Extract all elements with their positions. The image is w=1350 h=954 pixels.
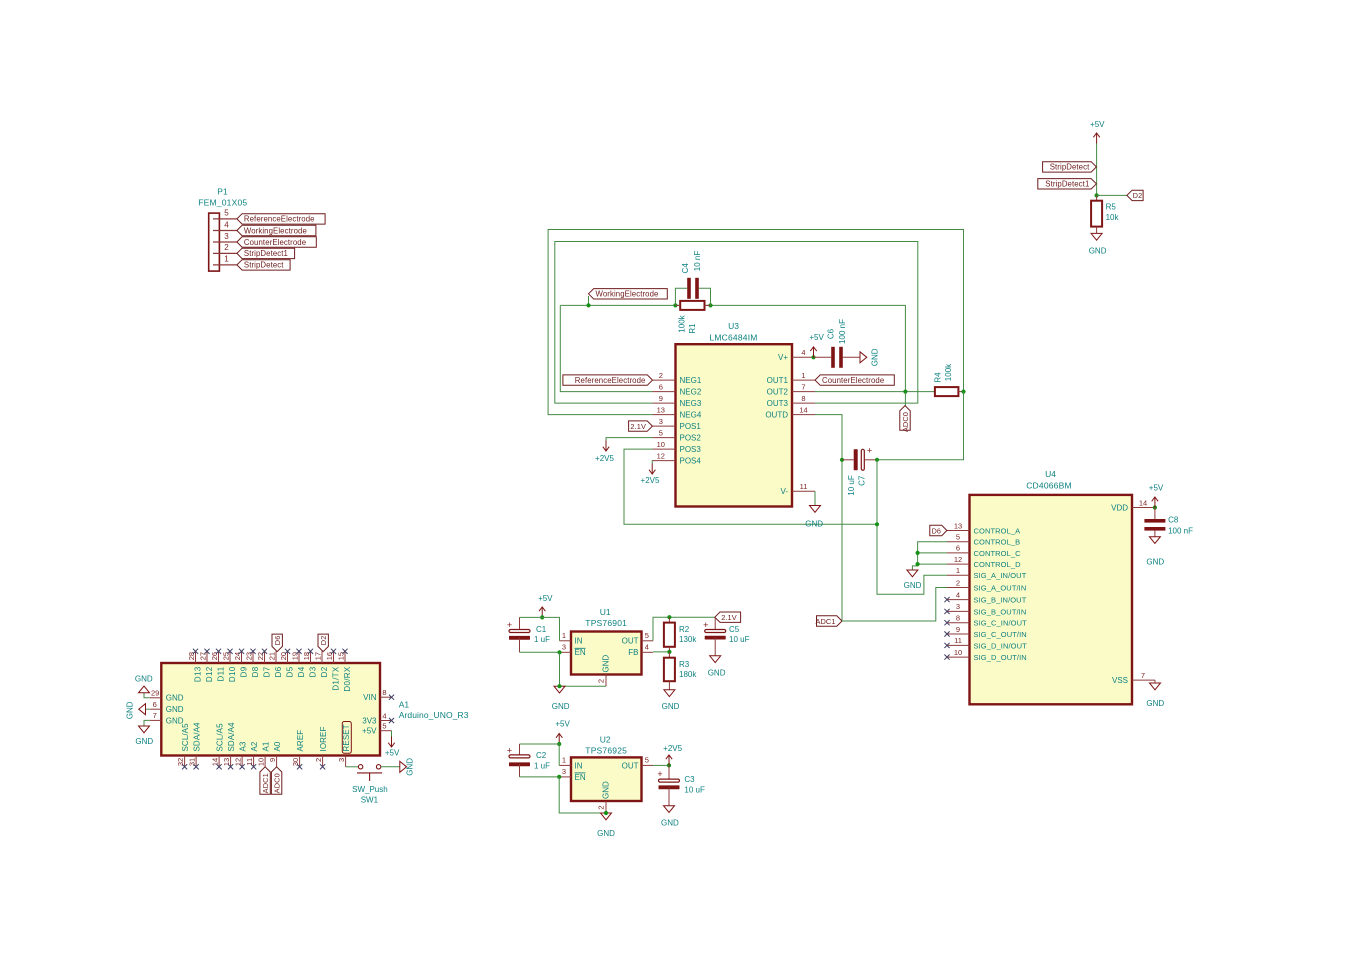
- label WorkingElectrode (U3): [589, 289, 668, 299]
- op-amp U3 LMC6484IM body: [676, 344, 793, 506]
- svg-text:VSS: VSS: [1112, 676, 1128, 685]
- node junction U2 GND: [604, 811, 608, 815]
- svg-text:D11: D11: [217, 666, 226, 681]
- svg-text:+: +: [507, 745, 512, 755]
- label ADC1 (mid): [817, 616, 843, 626]
- A1 pin 17 D2 (top): [321, 651, 323, 663]
- svg-text:8: 8: [382, 688, 386, 697]
- label D6 (Arduino D6 pin): [272, 634, 282, 652]
- capacitor C3 10uF (polarized): [668, 765, 670, 780]
- ground (U2): [601, 813, 612, 820]
- svg-text:130k: 130k: [679, 635, 697, 644]
- wire EN down to GND rail: [560, 652, 607, 686]
- ground (U4 VSS): [1150, 683, 1161, 690]
- U4 pin 7 VSS: [1132, 679, 1155, 681]
- A1 pin 22 D7 (top): [264, 651, 266, 663]
- svg-text:StripDetect: StripDetect: [244, 261, 284, 270]
- power +2V5 (POS4): [651, 461, 653, 464]
- svg-text:D8: D8: [251, 666, 260, 677]
- node junction CONTROL_C: [916, 551, 920, 555]
- ground (U1): [554, 686, 565, 693]
- capacitor C7 10uF (polarized): [842, 459, 854, 461]
- C4 connection wires: [675, 288, 687, 305]
- label CounterElectrode (U3 OUT1): [815, 375, 894, 385]
- svg-text:SIG_B_IN/OUT: SIG_B_IN/OUT: [974, 596, 1027, 605]
- wire C7 right down to SIG_A_IN: [877, 460, 947, 594]
- svg-text:GND: GND: [871, 348, 880, 366]
- svg-text:LMC6484IM: LMC6484IM: [709, 332, 757, 342]
- ground (A1 pin 7, down): [144, 720, 150, 726]
- svg-text:D6: D6: [274, 666, 283, 677]
- svg-text:POS4: POS4: [680, 457, 702, 466]
- U4 pin 8 SIG_C_IN/OUT: [947, 622, 970, 624]
- label ADC0 (Arduino A0 pin): [271, 767, 281, 795]
- U3 pin 12 POS4: [653, 460, 676, 462]
- svg-text:10 uF: 10 uF: [847, 475, 856, 496]
- svg-text:C2: C2: [536, 751, 547, 760]
- resistor R5: [1096, 195, 1098, 200]
- svg-text:3: 3: [337, 758, 346, 762]
- ground (right of SW1, rotated): [400, 761, 407, 772]
- P1 pin 1: [213, 264, 237, 266]
- U1 pin 3 EN: [560, 651, 572, 653]
- A1 pin 16 D1/TX (top): [333, 651, 335, 663]
- no-connect X on A1 pin 26: [216, 649, 221, 654]
- no-connect X on A1 pin 27: [204, 649, 209, 654]
- U4 pin 2 SIG_A_OUT/IN: [947, 587, 970, 589]
- svg-text:2: 2: [224, 243, 229, 252]
- svg-text:CONTROL_A: CONTROL_A: [974, 526, 1021, 535]
- svg-text:26: 26: [210, 652, 219, 660]
- svg-text:1 uF: 1 uF: [534, 762, 550, 771]
- svg-text:1: 1: [956, 566, 960, 575]
- A1 pin 5 +5V (right): [380, 730, 392, 732]
- svg-text:POS3: POS3: [680, 445, 702, 454]
- svg-text:SDA/A4: SDA/A4: [227, 722, 236, 752]
- capacitor C1 1uF (polarized): [519, 617, 521, 631]
- svg-text:OUT: OUT: [622, 761, 639, 770]
- wire EN down to GND pin: [559, 777, 606, 813]
- svg-text:21: 21: [268, 652, 277, 660]
- svg-text:2.1V: 2.1V: [721, 613, 737, 622]
- svg-text:ADC0: ADC0: [272, 773, 281, 793]
- svg-text:D10: D10: [228, 666, 237, 682]
- svg-text:GND: GND: [135, 737, 153, 746]
- node junction R1 left: [673, 303, 677, 307]
- svg-text:POS2: POS2: [680, 434, 702, 443]
- A1 pin 20 D5 (top): [287, 651, 289, 663]
- svg-text:2: 2: [314, 758, 323, 762]
- svg-text:SIG_C_OUT/IN: SIG_C_OUT/IN: [974, 630, 1027, 639]
- A1 pin 3 RESET (bottom): [345, 756, 347, 767]
- wire CONTROL_C: [918, 552, 947, 554]
- label ADC0 (U3): [900, 406, 910, 431]
- svg-text:25: 25: [222, 652, 231, 660]
- svg-text:CONTROL_D: CONTROL_D: [974, 560, 1022, 569]
- A1 pin 28 D13 (top): [195, 651, 197, 663]
- node junction EN: [557, 650, 561, 654]
- wire ADC1 to SIG_A_OUT: [842, 588, 947, 622]
- svg-text:20: 20: [279, 652, 288, 660]
- svg-text:A2: A2: [250, 741, 259, 751]
- svg-text:C5: C5: [729, 625, 740, 634]
- capacitor C4 10nF: [687, 278, 691, 299]
- svg-text:29: 29: [151, 689, 159, 698]
- A1 pin 4 3V3 (right): [380, 720, 392, 722]
- svg-text:28: 28: [187, 652, 196, 660]
- wire RESET to switch: [346, 766, 359, 768]
- svg-text:R4: R4: [933, 372, 942, 383]
- svg-text:1: 1: [224, 255, 229, 264]
- U1 pin 1 IN: [560, 640, 572, 642]
- svg-text:8: 8: [956, 614, 960, 623]
- label ADC0 stub: [904, 392, 906, 406]
- svg-text:2: 2: [596, 679, 605, 683]
- svg-text:D6: D6: [273, 636, 282, 646]
- svg-text:NEG4: NEG4: [680, 411, 702, 420]
- no-connect X on A1 pin 11: [251, 764, 256, 769]
- svg-text:GND: GND: [805, 519, 823, 528]
- svg-text:D0/RX: D0/RX: [343, 666, 352, 691]
- svg-text:EN: EN: [575, 773, 586, 782]
- svg-text:NEG1: NEG1: [680, 376, 702, 385]
- A1 pin 23 D8 (top): [252, 651, 254, 663]
- svg-text:WorkingElectrode: WorkingElectrode: [244, 226, 307, 235]
- wire NEG4 feedback loop (outer): [548, 230, 963, 415]
- U3 pin 8 OUT3: [792, 402, 815, 404]
- node junction R1 right: [708, 303, 712, 307]
- svg-text:10 nF: 10 nF: [693, 251, 702, 272]
- A1 pin 15 D0/RX (top): [344, 651, 346, 663]
- U3 pin 11 V-: [792, 490, 815, 492]
- svg-text:SIG_C_IN/OUT: SIG_C_IN/OUT: [974, 619, 1028, 628]
- wire CONTROL_B/C/D to ground: [912, 542, 947, 570]
- svg-text:6: 6: [153, 700, 157, 709]
- no-connect X on A1 pin 25: [227, 649, 232, 654]
- no-connect X on A1 pin 32: [182, 764, 187, 769]
- svg-text:ADC1: ADC1: [815, 617, 835, 626]
- svg-text:+5V: +5V: [538, 594, 553, 603]
- svg-text:GND: GND: [602, 655, 611, 673]
- svg-text:10: 10: [954, 648, 962, 657]
- svg-text:GND: GND: [602, 781, 611, 799]
- svg-text:C1: C1: [536, 625, 547, 634]
- wire NEG2 loop left: [560, 305, 652, 391]
- svg-text:V+: V+: [778, 353, 788, 362]
- A1 pin 21 D6 (top): [275, 651, 277, 663]
- svg-text:7: 7: [801, 382, 805, 391]
- svg-text:GND: GND: [166, 705, 184, 714]
- svg-text:+5V: +5V: [385, 748, 400, 757]
- label 2.1V (U3 POS1): [629, 421, 653, 431]
- svg-text:GND: GND: [1146, 699, 1164, 708]
- resistor R3 180k: [668, 652, 670, 658]
- svg-text:+2V5: +2V5: [663, 744, 682, 753]
- svg-text:GND: GND: [552, 702, 570, 711]
- U2 pin 1 IN: [559, 764, 571, 766]
- svg-text:4: 4: [382, 711, 386, 720]
- svg-text:GND: GND: [661, 819, 679, 828]
- svg-text:R1: R1: [688, 323, 697, 334]
- svg-text:10k: 10k: [1106, 213, 1120, 222]
- push button SW1 SW_Push: [358, 765, 362, 769]
- U2 pin 2 GND: [605, 801, 607, 813]
- wire FB to R2/R3: [653, 651, 669, 653]
- ground (below C8): [1149, 537, 1160, 544]
- svg-text:WorkingElectrode: WorkingElectrode: [596, 290, 659, 299]
- svg-text:IN: IN: [575, 761, 583, 770]
- node junction +5V U1: [540, 615, 544, 619]
- svg-text:5: 5: [645, 631, 649, 640]
- ground (A1 pin 29, up): [144, 693, 150, 698]
- svg-text:4: 4: [956, 590, 960, 599]
- svg-text:C6: C6: [827, 328, 836, 339]
- ground (right of C6, rotated): [860, 352, 867, 363]
- no-connect X on A1 pin 24: [239, 649, 244, 654]
- resistor R2 130k: [668, 617, 670, 622]
- power +2V5 (U2 out): [668, 755, 670, 766]
- no-connect X on U4 pin 3: [944, 609, 949, 614]
- svg-text:+5V: +5V: [809, 333, 824, 342]
- svg-text:100k: 100k: [678, 314, 687, 332]
- svg-text:2: 2: [596, 805, 605, 809]
- P1 pin 2: [213, 252, 237, 254]
- svg-text:1: 1: [801, 371, 805, 380]
- no-connect X on A1 pin 8: [389, 695, 394, 700]
- svg-text:P1: P1: [217, 186, 228, 196]
- svg-text:A3: A3: [239, 741, 248, 751]
- resistor R4 100k: [935, 387, 959, 396]
- svg-text:100 nF: 100 nF: [1168, 526, 1193, 535]
- svg-text:2: 2: [659, 371, 663, 380]
- label D6 (U4 CONTROL_A): [930, 525, 947, 535]
- svg-text:C3: C3: [684, 775, 695, 784]
- ground (below C3): [664, 806, 675, 813]
- wire NEG3-OUT3 feedback loop: [555, 242, 918, 404]
- svg-text:D5: D5: [286, 666, 295, 677]
- A1 pin 13 SDA/A4 (bottom): [230, 756, 232, 767]
- svg-text:GND: GND: [662, 702, 680, 711]
- svg-text:5: 5: [645, 756, 649, 765]
- svg-text:4: 4: [801, 348, 805, 357]
- svg-text:OUT3: OUT3: [767, 399, 789, 408]
- svg-text:15: 15: [337, 652, 346, 660]
- svg-text:D4: D4: [297, 666, 306, 677]
- svg-text:CounterElectrode: CounterElectrode: [822, 376, 884, 385]
- regulator U2 TPS76925 body: [571, 757, 642, 801]
- wire C2 top to U2 IN: [520, 744, 560, 765]
- svg-text:3: 3: [659, 417, 663, 426]
- U4 pin 10 SIG_D_OUT/IN: [947, 656, 970, 658]
- svg-text:+: +: [867, 446, 872, 456]
- svg-text:CD4066BM: CD4066BM: [1026, 481, 1072, 491]
- svg-text:24: 24: [233, 652, 242, 660]
- svg-text:RESET: RESET: [342, 724, 351, 751]
- resistor R1 100k: [680, 301, 704, 310]
- svg-text:16: 16: [325, 652, 334, 660]
- svg-text:5: 5: [382, 722, 386, 731]
- svg-text:SIG_D_OUT/IN: SIG_D_OUT/IN: [974, 653, 1027, 662]
- svg-text:19: 19: [291, 652, 300, 660]
- svg-text:R2: R2: [679, 625, 690, 634]
- wire OUT up to 2.1V rail: [653, 617, 715, 641]
- svg-text:TPS76925: TPS76925: [585, 745, 627, 755]
- capacitor C2 1uF (polarized): [519, 744, 521, 756]
- A1 pin 8 VIN (right): [380, 696, 392, 698]
- no-connect X on U4 pin 8: [944, 620, 949, 625]
- svg-text:+2V5: +2V5: [595, 454, 614, 463]
- label WorkingElectrode (P1 pin 4): [237, 225, 316, 235]
- wire CONTROL_D: [918, 563, 947, 565]
- node junction U2 EN: [557, 775, 561, 779]
- A1 pin 14 SCL/A5 (bottom): [218, 756, 220, 767]
- svg-text:SCL/A5: SCL/A5: [216, 723, 225, 752]
- U4 pin 9 SIG_C_OUT/IN: [947, 633, 970, 635]
- no-connect X on A1 pin 30: [297, 764, 302, 769]
- svg-text:VIN: VIN: [363, 693, 377, 702]
- svg-text:3: 3: [956, 602, 960, 611]
- svg-text:SIG_A_OUT/IN: SIG_A_OUT/IN: [974, 583, 1027, 592]
- label D2 (Arduino D2 pin): [318, 634, 328, 652]
- wire OUT2 to R4: [815, 391, 935, 393]
- svg-text:+: +: [657, 769, 662, 779]
- U4 pin 3 SIG_B_OUT/IN: [947, 610, 970, 612]
- ground (A1 pin 6, left): [146, 708, 150, 710]
- svg-text:Arduino_UNO_R3: Arduino_UNO_R3: [399, 710, 469, 720]
- U3 pin 4 V+: [792, 356, 815, 358]
- svg-text:NEG3: NEG3: [680, 399, 702, 408]
- svg-text:CONTROL_B: CONTROL_B: [974, 538, 1021, 547]
- svg-text:14: 14: [799, 405, 807, 414]
- no-connect X on A1 pin 14: [217, 764, 222, 769]
- svg-text:ReferenceElectrode: ReferenceElectrode: [575, 376, 646, 385]
- label StripDetect1 (top right): [1038, 179, 1097, 189]
- svg-text:12: 12: [657, 451, 665, 460]
- svg-text:+: +: [507, 620, 512, 630]
- node junction R4 right: [961, 390, 965, 394]
- svg-text:POS1: POS1: [680, 422, 702, 431]
- node junction OUT2/ADC0: [903, 390, 907, 394]
- U3 pin 7 OUT2: [792, 391, 815, 393]
- label 2.1V (U1 output): [715, 612, 741, 622]
- svg-text:+5V: +5V: [555, 720, 570, 729]
- svg-text:FEM_01X05: FEM_01X05: [198, 197, 247, 207]
- node junction U1 GND: [557, 684, 561, 688]
- U3 pin 9 NEG3: [653, 402, 676, 404]
- svg-text:GND: GND: [166, 694, 184, 703]
- connector P1 FEM_01X05: [209, 213, 220, 271]
- svg-text:D1/TX: D1/TX: [332, 666, 341, 691]
- wire OUT4 net down to ADC1: [815, 415, 842, 621]
- U4 pin 1 SIG_A_IN/OUT: [947, 574, 970, 576]
- wire R4 right down to C7: [877, 392, 964, 460]
- svg-text:+5V: +5V: [1149, 483, 1164, 492]
- svg-text:GND: GND: [135, 675, 153, 684]
- svg-text:180k: 180k: [679, 670, 697, 679]
- no-connect X on A1 pin 13: [228, 764, 233, 769]
- A1 pin 6 GND (left): [150, 708, 162, 710]
- svg-text:StripDetect: StripDetect: [1050, 163, 1090, 172]
- regulator U1 TPS76901 body: [571, 632, 642, 675]
- svg-text:D2: D2: [1133, 191, 1142, 200]
- svg-text:D2: D2: [320, 666, 329, 677]
- capacitor C5 10uF (polarized): [714, 617, 716, 631]
- wire C1 bottom to EN: [520, 651, 560, 653]
- svg-text:3V3: 3V3: [362, 716, 377, 725]
- svg-text:7: 7: [153, 711, 157, 720]
- analog switch U4 CD4066BM body: [970, 495, 1133, 704]
- label D2 (top right): [1127, 190, 1143, 200]
- U1 pin 2 GND: [605, 675, 607, 687]
- svg-text:ReferenceElectrode: ReferenceElectrode: [244, 215, 315, 224]
- svg-text:SW_Push: SW_Push: [352, 785, 388, 794]
- ground (below R3): [664, 690, 675, 697]
- svg-text:GND: GND: [1146, 558, 1164, 567]
- svg-text:1: 1: [562, 756, 566, 765]
- svg-text:11: 11: [800, 482, 808, 491]
- svg-text:CONTROL_C: CONTROL_C: [974, 549, 1022, 558]
- U3 pin 14 OUTD: [792, 414, 815, 416]
- svg-text:5: 5: [956, 533, 960, 542]
- wire POS3 net: [624, 449, 877, 524]
- svg-text:17: 17: [314, 652, 323, 660]
- svg-text:IN: IN: [575, 637, 583, 646]
- svg-text:11: 11: [954, 636, 962, 645]
- svg-text:TPS76901: TPS76901: [585, 618, 627, 628]
- svg-text:11: 11: [245, 758, 254, 766]
- no-connect X on U4 pin 10: [944, 655, 949, 660]
- A1 pin 10 A1 (bottom): [264, 756, 266, 767]
- svg-text:2.1V: 2.1V: [630, 422, 646, 431]
- svg-text:31: 31: [188, 758, 197, 766]
- U4 pin 14 VDD: [1132, 507, 1155, 509]
- no-connect X on A1 pin 12: [240, 764, 245, 769]
- svg-text:9: 9: [268, 758, 277, 762]
- svg-text:7: 7: [1141, 671, 1145, 680]
- svg-text:OUT2: OUT2: [767, 388, 789, 397]
- svg-text:3: 3: [562, 643, 566, 652]
- label StripDetect (P1 pin 1): [237, 260, 290, 270]
- svg-text:14: 14: [211, 758, 220, 766]
- svg-text:A1: A1: [399, 700, 410, 710]
- A1 pin 12 A3 (bottom): [241, 756, 243, 767]
- svg-text:C8: C8: [1168, 516, 1179, 525]
- svg-text:SCL/A5: SCL/A5: [181, 723, 190, 752]
- svg-text:ADC1: ADC1: [261, 773, 270, 793]
- label CounterElectrode (P1 pin 3): [237, 237, 316, 247]
- capacitor C8 100nF: [1154, 508, 1156, 520]
- no-connect X on A1 pin 20: [285, 649, 290, 654]
- svg-text:VDD: VDD: [1111, 503, 1128, 512]
- svg-text:SIG_D_IN/OUT: SIG_D_IN/OUT: [974, 641, 1028, 650]
- U3 pin 2 NEG1: [653, 379, 676, 381]
- no-connect X on A1 pin 28: [193, 649, 198, 654]
- module A1 Arduino_UNO_R3 body: [161, 663, 380, 756]
- U3 pin 3 POS1: [653, 425, 676, 427]
- node junction FB divider: [667, 650, 671, 654]
- svg-text:3: 3: [224, 232, 229, 241]
- svg-text:SIG_A_IN/OUT: SIG_A_IN/OUT: [974, 571, 1027, 580]
- U3 pin 1 OUT1: [792, 379, 815, 381]
- capacitor C6 100nF: [814, 356, 832, 358]
- svg-text:8: 8: [801, 394, 805, 403]
- svg-text:C7: C7: [857, 475, 866, 486]
- node junction WorkingElectrode label: [588, 296, 590, 305]
- U2 pin 3 EN: [559, 776, 571, 778]
- svg-text:OUT1: OUT1: [767, 376, 789, 385]
- svg-text:A1: A1: [262, 741, 271, 751]
- svg-text:9: 9: [659, 394, 663, 403]
